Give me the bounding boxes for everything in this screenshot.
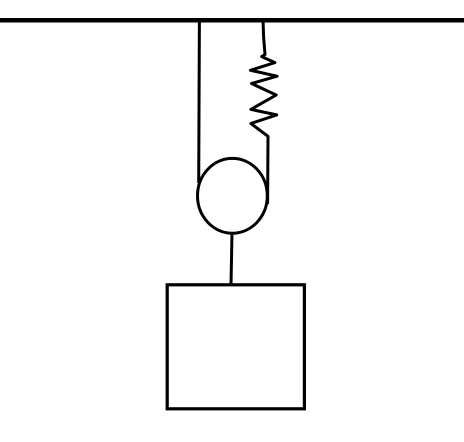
pulley xyxy=(198,158,268,233)
mass block xyxy=(167,285,304,409)
wire string from ceiling to pulley xyxy=(197,20,201,183)
ceiling xyxy=(0,18,464,23)
wire rope from pulley to mass xyxy=(231,233,232,285)
spring xyxy=(250,20,277,203)
